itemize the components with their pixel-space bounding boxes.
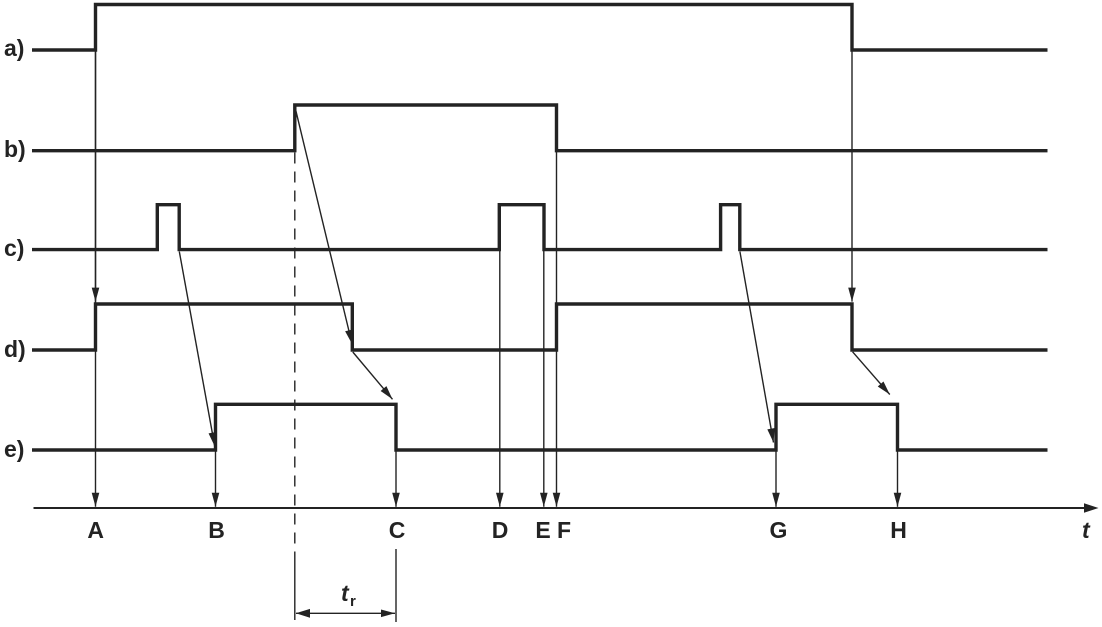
arrow a falling edge to d falling edge [851,50,853,302]
arrow H: e second falling edge to axis [897,450,899,507]
svg-text:t: t [341,580,350,606]
svg-text:e): e) [4,436,24,462]
dimension arrow tr [296,612,395,614]
arrow E: c pulse2 falling edge to axis [543,205,545,507]
extension line below C [395,549,397,622]
svg-text:r: r [350,593,356,610]
waveform d [32,304,1048,350]
waveform e [32,404,1048,450]
diagonal arrow c pulse3 to e second rising edge [740,252,774,443]
diagonal arrow d second falling edge to e second falling edge [853,352,890,395]
arrow a to d rising edge [95,50,97,302]
svg-text:A: A [87,517,104,543]
time axis [34,507,1087,509]
diagonal arrow b rising edge to d falling edge [295,107,352,344]
svg-text:c): c) [4,235,24,261]
arrow G: e second rising edge to axis [775,450,777,507]
svg-text:a): a) [4,35,24,61]
svg-text:F: F [557,517,571,543]
diagonal arrow c pulse1 to e rising edge [179,252,215,447]
arrow B: e rising edge to axis [215,450,217,507]
extension line left of tr [294,557,296,620]
diagonal arrow d falling edge to e falling edge [353,352,393,399]
svg-text:D: D [492,517,509,543]
svg-text:t: t [1082,517,1091,543]
waveform b [32,105,1048,151]
svg-text:G: G [770,517,788,543]
arrow F: b falling edge to axis [556,151,558,507]
svg-text:d): d) [4,336,26,362]
waveform c [32,205,1048,250]
svg-text:B: B [208,517,225,543]
waveform a [32,5,1048,51]
svg-text:E: E [535,517,550,543]
svg-text:b): b) [4,136,26,162]
arrow C: e falling edge to axis [395,450,397,507]
arrow A: a rising edge to axis [95,50,97,507]
svg-text:C: C [389,517,406,543]
arrow D: c pulse2 rising edge to axis [499,205,501,507]
svg-text:H: H [890,517,907,543]
dashed reference line from b rising edge [294,153,296,558]
